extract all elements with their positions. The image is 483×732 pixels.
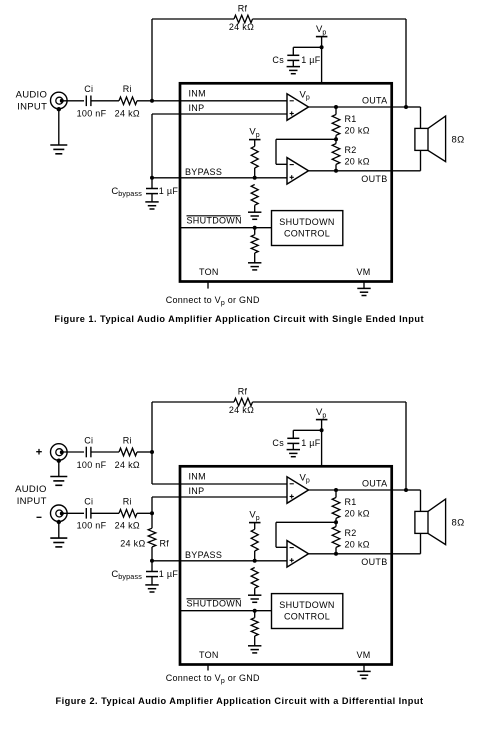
svg-text:R1: R1 (345, 497, 357, 507)
node R2 bottom junction (334, 552, 338, 556)
ground (SHUTDOWN pull-down) (248, 263, 261, 270)
node jack ground junction (57, 107, 61, 111)
power Vp supply (316, 24, 328, 36)
resistor internal bias upper (251, 140, 258, 178)
svg-text:Ci: Ci (84, 435, 93, 445)
svg-text:Vp: Vp (300, 89, 310, 101)
svg-text:Connect to Vp or GND: Connect to Vp or GND (166, 295, 260, 307)
wire Cs tap (293, 430, 321, 438)
resistor R1 20 k&#937; (332, 107, 340, 139)
power Vp (internal bias) (249, 509, 261, 522)
svg-text:20 kΩ: 20 kΩ (345, 126, 370, 136)
ground (VM) (357, 288, 370, 295)
svg-text:1 µF: 1 µF (301, 438, 321, 448)
wire feedback top-left vertical (151, 19, 153, 101)
wire Ri to INM pin (node INM) (137, 100, 287, 102)
svg-text:SHUTDOWN: SHUTDOWN (279, 600, 334, 610)
node Cbypass junction (150, 559, 154, 563)
wire feedback right vertical to OUTA (405, 402, 407, 490)
svg-text:100 nF: 100 nF (77, 460, 107, 470)
wire OUTA to speaker (406, 107, 421, 128)
svg-text:Vp: Vp (316, 24, 326, 36)
wire TON stub (207, 664, 209, 671)
svg-text:20 kΩ: 20 kΩ (345, 509, 370, 519)
speaker LS1 8 ohm (415, 116, 446, 162)
node INM junction (150, 99, 154, 103)
ground (SHUTDOWN pull-down) (248, 646, 261, 653)
wire SHUTDOWN to control (180, 610, 272, 612)
wire midpoint to op-amp B inverting input (276, 139, 336, 164)
svg-text:100 nF: 100 nF (77, 520, 107, 530)
ground (audio input jack) (50, 145, 67, 154)
svg-text:BYPASS: BYPASS (185, 167, 222, 177)
op-amp U1B (287, 158, 309, 185)
resistor internal bias upper (251, 523, 258, 561)
svg-text:Ci: Ci (84, 84, 93, 94)
wire TON stub (207, 281, 209, 289)
svg-text:R2: R2 (345, 528, 357, 538)
ground (Cs) (287, 67, 300, 74)
ground (- input jack) (50, 538, 67, 547)
wire Cs to ground (292, 443, 294, 449)
svg-text:CONTROL: CONTROL (284, 229, 330, 239)
svg-text:Connect to Vp or GND: Connect to Vp or GND (166, 673, 260, 685)
capacitor Cs 1 uF (287, 438, 299, 443)
label + (positive input) (36, 449, 42, 455)
wire feedback top horizontal (right of Rf) (253, 18, 407, 20)
node + jack ground junction (57, 459, 61, 463)
svg-text:INPUT: INPUT (17, 496, 47, 507)
ground (+ input jack) (50, 477, 67, 486)
capacitor Cs 1 uF (287, 55, 299, 60)
svg-text:Vp: Vp (316, 407, 326, 419)
svg-text:8Ω: 8Ω (452, 134, 465, 145)
svg-text:Rf: Rf (238, 387, 248, 397)
capacitor Cbypass 1 uF (146, 561, 158, 585)
ground (bias divider) (248, 595, 261, 602)
capacitor Ci 100 nF (- input) (86, 508, 91, 519)
connector J2 audio input - jack (51, 505, 68, 522)
svg-text:24 kΩ: 24 kΩ (115, 520, 140, 530)
wire jack to Ci (62, 100, 84, 102)
node + input junction (150, 450, 154, 454)
op-amp U1B (287, 541, 309, 568)
svg-text:TON: TON (199, 650, 219, 660)
op-amp U1A (287, 94, 309, 121)
resistor SHUTDOWN pull-down (251, 228, 258, 263)
wire OUTA (309, 489, 407, 491)
svg-text:R2: R2 (345, 145, 357, 155)
svg-text:OUTA: OUTA (362, 479, 388, 489)
label AUDIO INPUT (15, 484, 47, 507)
wire feedback top horizontal (right of Rf) (253, 401, 407, 403)
wire VM to ground (363, 664, 365, 672)
node OUTA junction (404, 488, 408, 492)
wire + jack to Ci (62, 451, 84, 453)
node R2 bottom junction (334, 169, 338, 173)
svg-text:Figure 1. Typical Audio Amplif: Figure 1. Typical Audio Amplifier Applic… (54, 314, 424, 324)
node OUTA junction (404, 105, 408, 109)
speaker LS1 8 ohm (415, 499, 446, 544)
connector J1 audio input jack (51, 92, 68, 109)
svg-text:20 kΩ: 20 kΩ (345, 540, 370, 550)
svg-text:Rf: Rf (238, 4, 248, 14)
svg-text:VM: VM (357, 650, 371, 660)
svg-text:AUDIO: AUDIO (15, 484, 47, 495)
svg-text:Cbypass: Cbypass (111, 569, 142, 581)
wire INP pin horizontal (152, 496, 287, 498)
ground (Cbypass) (145, 585, 158, 592)
resistor R2 20 k&#937; (332, 522, 340, 554)
resistor Rf 24 k&#937; (feedback) (234, 398, 253, 406)
wire SHUTDOWN to control (180, 227, 272, 229)
svg-text:SHUTDOWN: SHUTDOWN (187, 599, 242, 609)
wire OUTA (309, 106, 407, 108)
wire - jack to ground (58, 522, 60, 538)
SHUTDOWN CONTROL block (272, 594, 343, 629)
resistor Rf 24 k&#937; (feedback) (234, 15, 253, 23)
wire Vp to IC (321, 37, 323, 84)
capacitor Ci 100 nF (+ input) (86, 447, 91, 458)
node - jack ground junction (57, 520, 61, 524)
node SHUTDOWN junction (253, 609, 257, 613)
svg-text:24 kΩ: 24 kΩ (229, 22, 254, 32)
svg-text:Rf: Rf (160, 538, 170, 548)
svg-text:TON: TON (199, 267, 219, 277)
svg-text:8Ω: 8Ω (452, 517, 465, 528)
resistor R1 20 k&#937; (332, 490, 340, 522)
svg-text:Cbypass: Cbypass (111, 186, 142, 198)
resistor internal bias lower (251, 185, 258, 213)
ground (Cbypass) (145, 202, 158, 209)
node Cbypass junction (150, 176, 154, 180)
wire + Ri to INM node (137, 451, 152, 453)
svg-text:Cs: Cs (272, 55, 284, 65)
svg-text:INP: INP (189, 486, 205, 496)
svg-text:Vp: Vp (249, 509, 259, 521)
wire Vp to IC (321, 420, 323, 467)
svg-text:INM: INM (189, 88, 206, 98)
resistor R2 20 k&#937; (332, 139, 340, 171)
svg-text:100 nF: 100 nF (77, 109, 107, 119)
power Vp supply (316, 407, 328, 419)
connector J1 audio input + jack (51, 444, 68, 461)
wire Cs tap (293, 47, 321, 55)
svg-text:AUDIO: AUDIO (16, 90, 48, 101)
node Cs junction (320, 45, 324, 49)
svg-text:INP: INP (189, 103, 205, 113)
capacitor Cbypass 1 uF (146, 178, 158, 202)
svg-text:INPUT: INPUT (17, 101, 47, 112)
resistor SHUTDOWN pull-down (251, 611, 258, 646)
power Vp (internal bias) (249, 126, 261, 139)
wire Cs to ground (292, 60, 294, 66)
node SHUTDOWN junction (253, 226, 257, 230)
wire feedback right vertical to OUTA (405, 19, 407, 107)
svg-text:24 kΩ: 24 kΩ (115, 460, 140, 470)
wire INP vertical (151, 497, 153, 513)
SHUTDOWN CONTROL block (272, 211, 343, 246)
op-amp U1A (287, 477, 309, 504)
svg-text:Ri: Ri (123, 497, 132, 507)
label AUDIO INPUT (16, 90, 48, 113)
node R1-R2 midpoint junction (334, 137, 338, 141)
wire OUTB (309, 170, 421, 172)
svg-text:Figure 2. Typical Audio Amplif: Figure 2. Typical Audio Amplifier Applic… (55, 696, 423, 706)
svg-text:SHUTDOWN: SHUTDOWN (187, 216, 242, 226)
svg-text:CONTROL: CONTROL (284, 612, 330, 622)
pin label SHUTDOWN (active low) (187, 599, 242, 609)
wire OUTB to speaker (420, 150, 422, 170)
svg-text:Ci: Ci (84, 497, 93, 507)
wire OUTA to speaker (406, 490, 421, 511)
svg-text:OUTB: OUTB (361, 557, 387, 567)
wire + jack to ground (58, 461, 60, 477)
node Cs junction (320, 428, 324, 432)
svg-text:Ri: Ri (123, 84, 132, 94)
IC U1 amplifier outline (180, 466, 392, 664)
wire + Ci to Ri (91, 451, 119, 453)
svg-text:OUTA: OUTA (362, 96, 388, 106)
resistor Rf 24 k&#937; (input bias, vertical) (148, 513, 156, 561)
wire OUTB (309, 553, 421, 555)
wire - Ci to Ri (91, 512, 119, 514)
node bias divider junction (253, 559, 257, 563)
pin label SHUTDOWN (active low) (187, 216, 242, 226)
wire - jack to Ci (62, 512, 84, 514)
svg-text:Vp: Vp (249, 126, 259, 138)
node bias divider junction (253, 176, 257, 180)
svg-text:24 kΩ: 24 kΩ (115, 109, 140, 119)
wire BYPASS horizontal (152, 560, 287, 562)
svg-text:Ri: Ri (123, 435, 132, 445)
node R1 top junction (334, 105, 338, 109)
svg-text:VM: VM (357, 267, 371, 277)
resistor Ri 24 k&#937; (- input) (119, 510, 137, 518)
svg-text:INM: INM (189, 471, 206, 481)
svg-text:20 kΩ: 20 kΩ (345, 157, 370, 167)
svg-text:1 µF: 1 µF (159, 186, 179, 196)
svg-text:Cs: Cs (272, 438, 284, 448)
IC U1 amplifier outline (180, 83, 392, 281)
wire INM pin horizontal (152, 483, 287, 485)
wire midpoint to op-amp B inverting input (276, 522, 336, 547)
wire INP to BYPASS vertical (151, 114, 153, 178)
ground (VM) (357, 671, 370, 678)
resistor internal bias lower (251, 568, 258, 596)
svg-text:1 µF: 1 µF (301, 55, 321, 65)
wire Ci to Ri (91, 100, 119, 102)
wire - Ri to INP node (137, 512, 152, 514)
svg-text:24 kΩ: 24 kΩ (120, 538, 145, 548)
wire jack to ground (58, 109, 60, 145)
wire feedback top-left vertical (151, 402, 153, 484)
svg-text:24 kΩ: 24 kΩ (229, 405, 254, 415)
resistor Ri 24 k&#937; (119, 97, 137, 105)
wire VM to ground (363, 281, 365, 289)
wire feedback top horizontal (left of Rf) (152, 401, 234, 403)
ground (bias divider) (248, 212, 261, 219)
svg-text:BYPASS: BYPASS (185, 550, 222, 560)
wire OUTB to speaker (420, 533, 422, 553)
resistor Ri 24 k&#937; (+ input) (119, 448, 137, 456)
svg-text:SHUTDOWN: SHUTDOWN (279, 217, 334, 227)
svg-text:1 µF: 1 µF (159, 569, 179, 579)
wire feedback top horizontal (left of Rf) (152, 18, 234, 20)
ground (Cs) (287, 450, 300, 457)
wire BYPASS horizontal (152, 177, 287, 179)
wire INP pin horizontal (152, 113, 287, 115)
node R1 top junction (334, 488, 338, 492)
label - (negative input) (37, 516, 42, 518)
capacitor Ci 100 nF (86, 96, 91, 107)
svg-text:R1: R1 (345, 114, 357, 124)
node R1-R2 midpoint junction (334, 520, 338, 524)
svg-text:Vp: Vp (300, 472, 310, 484)
svg-text:OUTB: OUTB (361, 174, 387, 184)
node - input junction (150, 511, 154, 515)
